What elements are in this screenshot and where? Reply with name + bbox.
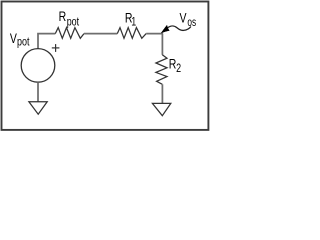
svg-text:R: R <box>59 9 67 25</box>
svg-text:1: 1 <box>131 17 136 29</box>
svg-text:pot: pot <box>67 17 80 29</box>
svg-text:os: os <box>187 17 196 30</box>
svg-text:R: R <box>169 56 177 72</box>
svg-text:V: V <box>180 10 188 26</box>
svg-text:pot: pot <box>17 37 30 49</box>
svg-text:2: 2 <box>176 63 181 75</box>
